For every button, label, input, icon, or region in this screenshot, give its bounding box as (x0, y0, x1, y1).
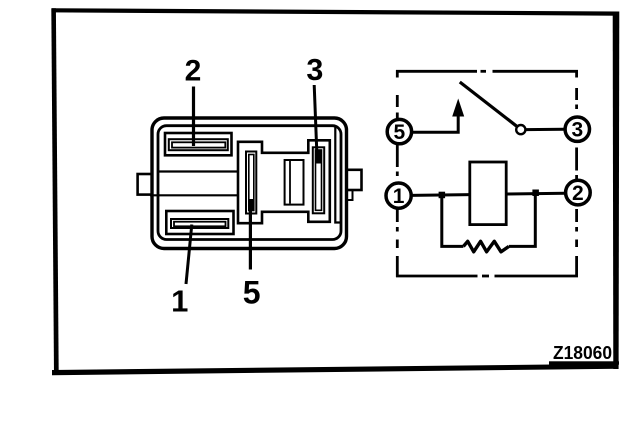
svg-text:5: 5 (394, 121, 406, 144)
pin 1 slot (171, 219, 228, 228)
terminal circle 5 (387, 119, 411, 144)
wire coil to 2 (506, 192, 565, 196)
junction dot left (439, 192, 446, 199)
leader 2 (192, 87, 195, 147)
figure border bottom (52, 364, 619, 375)
pin 5 slot (246, 152, 256, 214)
branch wire right (509, 193, 535, 247)
figure border right (613, 12, 620, 370)
leader 1 (186, 225, 192, 285)
figure border left (51, 8, 58, 374)
svg-text:3: 3 (571, 119, 583, 142)
center bridge outline (238, 140, 330, 223)
pin 1 socket (166, 211, 233, 234)
label-box underline Z18060 (549, 361, 619, 364)
switch contact circle (516, 125, 525, 134)
resistor R1 (463, 241, 509, 252)
divider line A (159, 170, 238, 172)
wire 1 to coil (411, 193, 469, 197)
middle slot inner line (289, 161, 291, 204)
switch arrowhead (452, 99, 464, 117)
dash-dot box top (396, 70, 578, 73)
branch wire left (442, 195, 464, 247)
pin 2 terminal bar (172, 142, 225, 147)
leader 5 (249, 203, 252, 270)
figure border top (52, 8, 619, 16)
svg-text:5: 5 (243, 274, 261, 310)
pin 2 slot (169, 139, 228, 150)
junction dot right (532, 190, 539, 197)
terminal circle 2 (566, 180, 591, 205)
pin 3 slot (313, 147, 324, 213)
left tab (138, 174, 152, 195)
relay outer case (152, 118, 347, 249)
right tab (347, 170, 362, 190)
pin 5 terminal bar (249, 155, 254, 211)
svg-text:3: 3 (306, 53, 323, 87)
svg-text:2: 2 (185, 55, 202, 88)
dash-dot box left (396, 70, 399, 277)
pin 5 bar dark end (249, 199, 254, 211)
terminal circle 3 (565, 117, 589, 142)
switch blade (460, 82, 517, 126)
pin 3 bar dark end (315, 150, 322, 164)
terminal circle 1 (386, 183, 411, 208)
leader 3 (314, 85, 317, 162)
svg-text:1: 1 (171, 284, 188, 319)
middle slot (285, 160, 304, 205)
pin 2 socket (165, 133, 232, 155)
svg-text:2: 2 (572, 182, 584, 205)
dash-dot box right (575, 70, 578, 277)
right tab step (347, 190, 353, 200)
relay inner case (158, 126, 341, 240)
wire contact to 3 (526, 128, 565, 131)
pin 3 terminal bar (316, 150, 322, 210)
pin 1 terminal bar (174, 222, 226, 227)
svg-text:1: 1 (393, 185, 405, 208)
svg-text:Z18060: Z18060 (553, 343, 612, 363)
right inner channel (335, 127, 341, 223)
coil L1 (470, 162, 506, 225)
divider line B (150, 194, 238, 196)
wire 5 to switch (412, 111, 458, 132)
dash-dot box bottom (396, 275, 578, 278)
